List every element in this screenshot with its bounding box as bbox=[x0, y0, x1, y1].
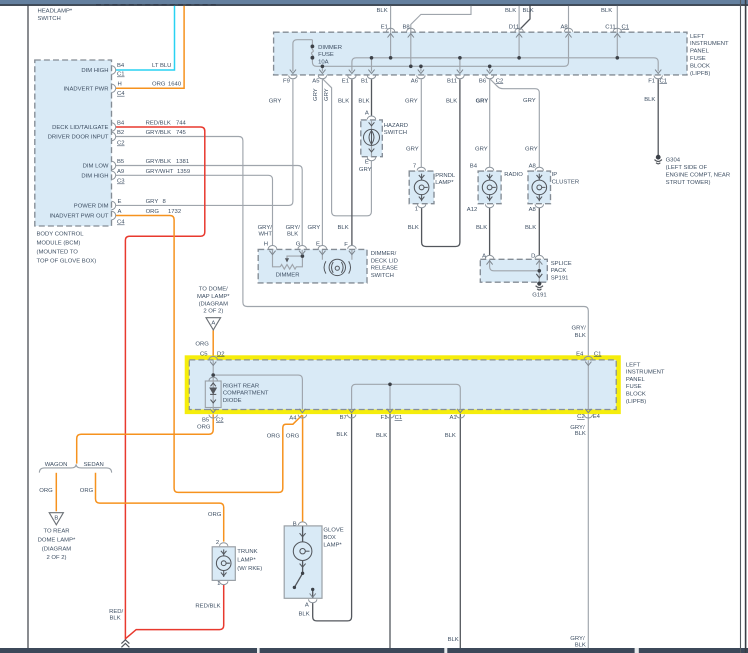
svg-text:C2: C2 bbox=[577, 414, 585, 420]
svg-text:F1: F1 bbox=[648, 78, 655, 84]
svg-text:B5: B5 bbox=[117, 159, 125, 165]
svg-text:A: A bbox=[211, 321, 215, 327]
svg-text:WHT: WHT bbox=[259, 232, 273, 238]
svg-text:ORG: ORG bbox=[195, 341, 209, 347]
svg-text:BLK: BLK bbox=[445, 433, 456, 439]
svg-text:GRY/: GRY/ bbox=[572, 325, 587, 331]
svg-text:LAMP*: LAMP* bbox=[237, 558, 256, 564]
svg-text:BLK: BLK bbox=[505, 8, 516, 14]
svg-text:MODULE (BCM): MODULE (BCM) bbox=[37, 241, 81, 247]
svg-text:C4: C4 bbox=[117, 91, 125, 97]
svg-text:C1: C1 bbox=[395, 415, 403, 421]
svg-text:744: 744 bbox=[176, 121, 187, 127]
svg-text:A: A bbox=[482, 253, 486, 259]
svg-text:ORG: ORG bbox=[80, 488, 94, 494]
svg-text:C2: C2 bbox=[117, 141, 125, 147]
svg-text:INADVERT PWR OUT: INADVERT PWR OUT bbox=[49, 214, 108, 220]
svg-text:BODY CONTROL: BODY CONTROL bbox=[37, 232, 85, 238]
svg-text:GRY: GRY bbox=[359, 167, 372, 173]
svg-text:RELEASE: RELEASE bbox=[371, 266, 398, 272]
svg-text:B7: B7 bbox=[340, 415, 347, 421]
svg-text:10A: 10A bbox=[318, 60, 329, 66]
svg-text:C1: C1 bbox=[622, 24, 630, 30]
svg-text:GRY/: GRY/ bbox=[258, 225, 273, 231]
svg-text:POWER DIM: POWER DIM bbox=[74, 204, 109, 210]
svg-text:E1: E1 bbox=[381, 24, 388, 30]
svg-text:(LIPFB): (LIPFB) bbox=[690, 71, 710, 77]
svg-text:C1: C1 bbox=[117, 72, 125, 78]
svg-text:GRY/BLK: GRY/BLK bbox=[146, 130, 172, 136]
svg-text:A12: A12 bbox=[467, 207, 477, 213]
svg-text:SWITCH: SWITCH bbox=[38, 16, 61, 22]
svg-text:PANEL: PANEL bbox=[626, 377, 646, 383]
svg-text:C2: C2 bbox=[216, 417, 224, 423]
svg-text:A6: A6 bbox=[411, 78, 419, 84]
svg-text:TOP OF GLOVE BOX): TOP OF GLOVE BOX) bbox=[37, 259, 97, 265]
svg-text:MAP LAMP*: MAP LAMP* bbox=[197, 294, 230, 300]
svg-text:B2: B2 bbox=[117, 130, 124, 136]
svg-text:A: A bbox=[118, 209, 122, 215]
svg-text:LAMP*: LAMP* bbox=[435, 180, 454, 186]
svg-text:2: 2 bbox=[216, 540, 219, 546]
svg-text:A8: A8 bbox=[529, 207, 537, 213]
svg-text:(LEFT SIDE OF: (LEFT SIDE OF bbox=[666, 165, 708, 171]
svg-text:GRY: GRY bbox=[406, 147, 419, 153]
svg-text:WAGON: WAGON bbox=[45, 462, 68, 468]
svg-text:B5: B5 bbox=[202, 417, 210, 423]
svg-text:BLK: BLK bbox=[448, 637, 459, 643]
svg-text:C1: C1 bbox=[660, 78, 668, 84]
svg-text:BLOCK: BLOCK bbox=[626, 392, 646, 398]
svg-text:BLK: BLK bbox=[575, 431, 586, 437]
svg-text:1732: 1732 bbox=[168, 209, 181, 215]
svg-text:FUSE: FUSE bbox=[690, 56, 706, 62]
svg-text:SWITCH: SWITCH bbox=[384, 130, 407, 136]
svg-text:SEDAN: SEDAN bbox=[84, 462, 104, 468]
svg-text:HAZARD: HAZARD bbox=[384, 123, 408, 129]
svg-text:A: A bbox=[305, 603, 309, 609]
svg-text:E: E bbox=[365, 160, 369, 166]
svg-text:1: 1 bbox=[217, 581, 220, 587]
svg-text:DOME LAMP*: DOME LAMP* bbox=[38, 538, 76, 544]
svg-text:E: E bbox=[316, 242, 320, 248]
svg-text:G: G bbox=[296, 242, 301, 248]
svg-text:GRY: GRY bbox=[324, 88, 330, 101]
svg-text:A9: A9 bbox=[117, 169, 124, 175]
svg-text:BLK: BLK bbox=[336, 432, 347, 438]
svg-text:SP191: SP191 bbox=[551, 275, 569, 281]
svg-text:DECK LID: DECK LID bbox=[371, 258, 398, 264]
svg-text:B4: B4 bbox=[470, 163, 478, 169]
svg-text:BLK: BLK bbox=[446, 99, 457, 105]
svg-text:RED/BLK: RED/BLK bbox=[146, 121, 171, 127]
svg-text:BLK: BLK bbox=[601, 8, 612, 14]
svg-text:B4: B4 bbox=[117, 63, 125, 69]
svg-text:A8: A8 bbox=[529, 163, 537, 169]
svg-text:DIM HIGH: DIM HIGH bbox=[81, 68, 108, 74]
svg-text:C3: C3 bbox=[117, 179, 125, 185]
svg-text:C2: C2 bbox=[496, 78, 504, 84]
svg-text:LEFT: LEFT bbox=[626, 362, 641, 368]
svg-text:A8: A8 bbox=[561, 24, 569, 30]
svg-text:INADVERT PWR: INADVERT PWR bbox=[64, 87, 109, 93]
svg-text:DIMMER/: DIMMER/ bbox=[371, 251, 397, 257]
svg-text:TRUNK: TRUNK bbox=[237, 549, 257, 555]
svg-text:ORG: ORG bbox=[267, 433, 281, 439]
svg-text:G304: G304 bbox=[666, 157, 681, 163]
svg-text:A5: A5 bbox=[312, 78, 320, 84]
svg-text:RED/: RED/ bbox=[109, 609, 123, 615]
svg-text:B: B bbox=[293, 521, 297, 527]
svg-text:GRY: GRY bbox=[523, 98, 536, 104]
svg-text:BOX: BOX bbox=[323, 535, 336, 541]
svg-text:GRY/WHT: GRY/WHT bbox=[146, 169, 174, 175]
svg-text:BLK: BLK bbox=[377, 8, 388, 14]
svg-text:ORG: ORG bbox=[286, 433, 300, 439]
svg-text:ORG: ORG bbox=[197, 425, 211, 431]
svg-text:C4: C4 bbox=[117, 220, 125, 226]
svg-text:GRY/BLK: GRY/BLK bbox=[146, 159, 172, 165]
svg-text:GRY/: GRY/ bbox=[570, 636, 585, 642]
svg-text:DIM LOW: DIM LOW bbox=[83, 164, 109, 170]
svg-text:B11: B11 bbox=[447, 78, 457, 84]
svg-text:DRIVER DOOR INPUT: DRIVER DOOR INPUT bbox=[48, 135, 109, 141]
svg-text:RIGHT REAR: RIGHT REAR bbox=[223, 384, 259, 390]
svg-text:RED/BLK: RED/BLK bbox=[195, 603, 220, 609]
svg-text:DIODE: DIODE bbox=[223, 398, 242, 404]
svg-text:1359: 1359 bbox=[177, 169, 190, 175]
svg-text:2 OF 2): 2 OF 2) bbox=[47, 555, 67, 561]
svg-text:ORG: ORG bbox=[208, 512, 222, 518]
svg-text:BLK: BLK bbox=[476, 225, 487, 231]
svg-text:BLK: BLK bbox=[644, 97, 655, 103]
svg-text:A: A bbox=[365, 111, 369, 117]
svg-text:INSTRUMENT: INSTRUMENT bbox=[690, 41, 729, 47]
svg-text:E4: E4 bbox=[593, 414, 601, 420]
svg-text:BLK: BLK bbox=[575, 642, 586, 648]
svg-text:G191: G191 bbox=[532, 292, 546, 298]
svg-text:GRY: GRY bbox=[405, 99, 418, 105]
svg-text:ENGINE COMPT, NEAR: ENGINE COMPT, NEAR bbox=[666, 173, 730, 179]
svg-text:IP: IP bbox=[552, 172, 558, 178]
svg-text:GLOVE: GLOVE bbox=[323, 527, 343, 533]
svg-text:CLUSTER: CLUSTER bbox=[552, 179, 580, 185]
svg-text:ORG: ORG bbox=[39, 488, 53, 494]
svg-text:B: B bbox=[54, 516, 58, 522]
svg-text:HEADLAMP*: HEADLAMP* bbox=[38, 9, 73, 15]
svg-text:B8: B8 bbox=[403, 24, 411, 30]
svg-text:(DIAGRAM: (DIAGRAM bbox=[199, 301, 229, 307]
svg-text:LAMP*: LAMP* bbox=[323, 542, 342, 548]
svg-text:DIMMER: DIMMER bbox=[318, 45, 342, 51]
svg-text:BLK: BLK bbox=[358, 99, 369, 105]
svg-text:PACK: PACK bbox=[551, 268, 567, 274]
svg-text:B1: B1 bbox=[361, 78, 368, 84]
svg-text:FUSE: FUSE bbox=[626, 384, 642, 390]
svg-text:A1: A1 bbox=[450, 415, 457, 421]
svg-text:GRY/: GRY/ bbox=[286, 225, 301, 231]
svg-text:(DIAGRAM: (DIAGRAM bbox=[42, 547, 72, 553]
svg-text:BLK: BLK bbox=[376, 433, 387, 439]
svg-text:B4: B4 bbox=[117, 121, 125, 127]
svg-text:E: E bbox=[118, 199, 122, 205]
svg-text:A4: A4 bbox=[289, 415, 297, 421]
svg-text:(LIPFB): (LIPFB) bbox=[626, 399, 646, 405]
svg-text:E4: E4 bbox=[576, 351, 584, 357]
svg-text:B6: B6 bbox=[479, 78, 487, 84]
svg-text:PANEL: PANEL bbox=[690, 49, 710, 55]
svg-text:GRY: GRY bbox=[146, 199, 159, 205]
svg-text:BLK: BLK bbox=[523, 8, 534, 14]
svg-text:TO REAR: TO REAR bbox=[43, 529, 69, 535]
svg-text:RADIO: RADIO bbox=[504, 172, 523, 178]
svg-text:LEFT: LEFT bbox=[690, 34, 705, 40]
svg-text:BLK: BLK bbox=[338, 225, 349, 231]
svg-text:F: F bbox=[344, 242, 348, 248]
svg-text:GRY: GRY bbox=[269, 99, 282, 105]
svg-text:PRNDL: PRNDL bbox=[435, 173, 456, 179]
svg-text:(MOUNTED TO: (MOUNTED TO bbox=[37, 250, 79, 256]
svg-text:745: 745 bbox=[176, 130, 187, 136]
svg-text:D: D bbox=[531, 253, 535, 259]
svg-text:H: H bbox=[118, 81, 122, 87]
svg-text:GRY: GRY bbox=[525, 147, 538, 153]
svg-text:F9: F9 bbox=[283, 78, 290, 84]
svg-text:C11: C11 bbox=[605, 24, 615, 30]
svg-text:(W/ RKE): (W/ RKE) bbox=[237, 566, 262, 572]
svg-text:GRY: GRY bbox=[313, 88, 319, 101]
svg-text:7: 7 bbox=[413, 163, 416, 169]
svg-text:ORG: ORG bbox=[152, 81, 166, 87]
svg-text:D2: D2 bbox=[217, 351, 225, 357]
svg-text:BLK: BLK bbox=[287, 232, 298, 238]
svg-text:FUSE: FUSE bbox=[318, 52, 334, 58]
svg-text:F1: F1 bbox=[381, 415, 388, 421]
svg-text:GRY: GRY bbox=[308, 225, 321, 231]
svg-text:SWITCH: SWITCH bbox=[371, 273, 394, 279]
svg-text:1381: 1381 bbox=[176, 159, 189, 165]
svg-text:GRY: GRY bbox=[475, 147, 488, 153]
svg-text:BLOCK: BLOCK bbox=[690, 63, 710, 69]
svg-text:LT BLU: LT BLU bbox=[152, 63, 171, 69]
svg-text:TO DOME/: TO DOME/ bbox=[199, 287, 228, 293]
svg-text:BLK: BLK bbox=[110, 616, 121, 622]
svg-text:1: 1 bbox=[415, 206, 418, 212]
svg-text:H: H bbox=[264, 242, 268, 248]
svg-text:C5: C5 bbox=[200, 351, 208, 357]
svg-text:DIMMER: DIMMER bbox=[276, 272, 300, 278]
svg-text:SPLICE: SPLICE bbox=[551, 261, 572, 267]
svg-text:BLK: BLK bbox=[525, 225, 536, 231]
svg-text:ORG: ORG bbox=[146, 209, 160, 215]
svg-text:C1: C1 bbox=[594, 351, 602, 357]
svg-text:BLK: BLK bbox=[408, 225, 419, 231]
svg-text:DECK LID/TAILGATE: DECK LID/TAILGATE bbox=[52, 125, 108, 131]
svg-text:BLK: BLK bbox=[575, 333, 586, 339]
svg-text:GRY: GRY bbox=[476, 99, 489, 105]
svg-text:BLK: BLK bbox=[338, 99, 349, 105]
svg-text:INSTRUMENT: INSTRUMENT bbox=[626, 370, 665, 376]
svg-text:COMPARTMENT: COMPARTMENT bbox=[223, 391, 269, 397]
svg-text:DIM HIGH: DIM HIGH bbox=[81, 174, 108, 180]
svg-text:D11: D11 bbox=[509, 24, 519, 30]
svg-text:2 OF 2): 2 OF 2) bbox=[203, 309, 223, 315]
svg-text:STRUT TOWER): STRUT TOWER) bbox=[666, 180, 711, 186]
svg-text:1640: 1640 bbox=[168, 81, 182, 87]
svg-text:E1: E1 bbox=[342, 78, 349, 84]
svg-text:BLK: BLK bbox=[299, 611, 310, 617]
